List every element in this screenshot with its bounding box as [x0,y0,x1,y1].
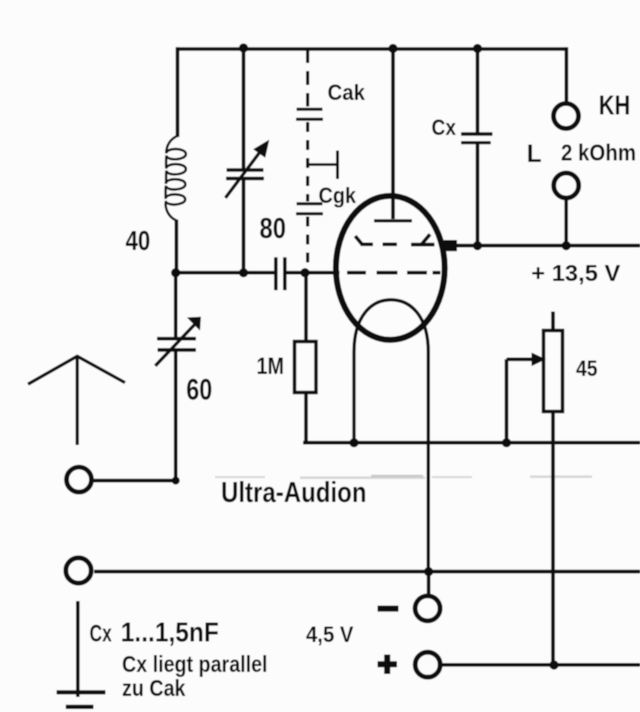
wire: tank left rail top segment [176,47,180,137]
svg-text:2 kOhm: 2 kOhm [561,140,636,166]
node: antenna junction [172,477,180,485]
node: anode square junction [444,240,457,251]
node: filament left leg junction [349,438,358,447]
antenna terminal [67,467,92,492]
svg-text:zu Cak: zu Cak [122,675,186,701]
tube plate element (dashed) with end ticks [355,234,434,244]
capacitor Cgk (dashed branch lower) [296,204,323,271]
wire: grid rail (right of coupling cap) [287,271,340,275]
wire: top rail [176,47,568,51]
node: tank right junction [239,268,248,277]
wire: coil bottom lead [175,220,179,273]
svg-text:1M: 1M [257,353,285,380]
tube V1 envelope [336,196,445,340]
node: grid junction [300,268,309,277]
tube anode plate [374,219,412,222]
inductor 40 (coil) [166,136,186,221]
wire: minus terminal stub [427,572,431,595]
terminal battery plus [415,652,440,677]
svg-text:Cgk: Cgk [319,183,357,208]
label plus sign [378,655,398,675]
node: Cx bottom junction [473,241,482,250]
node: top rail dot at Cx [473,44,482,53]
antenna [28,356,125,445]
tube grid (dashed) [347,271,441,275]
label minus sign [378,606,399,612]
terminal ground side [66,558,91,583]
resistor 1M [295,273,317,442]
wire: antenna to tuning cap [93,479,176,483]
terminal KH [554,104,579,129]
capacitor Cx [461,47,493,245]
svg-text:45: 45 [576,356,598,381]
potentiometer 45 [507,312,563,666]
variable capacitor 80 (tuning) [225,47,266,272]
wire: Cx ground lead [76,601,80,697]
terminal L [554,173,579,198]
capacitor 80pF grid coupling [276,257,285,290]
svg-text:1...1,5nF: 1...1,5nF [121,617,219,648]
variable capacitor 60 (antenna) [155,273,197,481]
svg-text:+ 13,5 V: + 13,5 V [531,260,621,286]
wire: right rail down to phones [565,47,569,102]
node: minus junction [424,567,433,576]
ground [57,692,106,707]
wire: cathode rail [303,441,640,445]
node: top rail dot at 80 cap [239,43,248,52]
capacitor Cak (dashed branch upper) [296,49,323,202]
node: wiper junction [502,438,511,447]
node: plus junction [549,660,558,669]
svg-text:Ultra-Audion: Ultra-Audion [221,477,367,509]
tube filament [354,300,428,572]
wire: grid rail (left of coupling cap) [176,271,275,275]
wire: phones to +13.5V rail [564,198,568,246]
tube anode lead [391,47,395,219]
Cgk tap plate [309,151,338,180]
node: phones junction [562,241,571,250]
svg-text:Cak: Cak [328,80,366,105]
svg-text:60: 60 [186,374,212,407]
wire: plus rail [443,663,640,667]
svg-text:4,5 V: 4,5 V [306,622,354,647]
svg-text:Cx: Cx [90,620,113,647]
wire: lower rail [94,570,640,574]
svg-text:80: 80 [260,213,287,245]
svg-text:Cx liegt parallel: Cx liegt parallel [122,651,268,677]
terminal battery minus [415,596,440,621]
svg-text:L: L [527,141,542,168]
svg-text:Cx: Cx [432,115,457,140]
svg-text:40: 40 [126,225,151,256]
node: top rail dot at anode [388,44,397,53]
svg-text:KH: KH [599,90,631,121]
wire: +13.5V rail [450,244,640,248]
node: tank left junction [171,268,180,277]
